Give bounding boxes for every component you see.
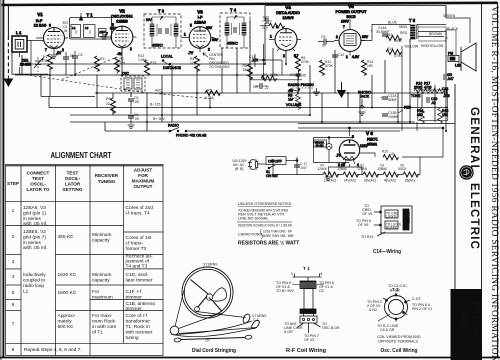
osc coil T2 wiring diagram: [378, 287, 410, 322]
wire B- bus y107.5: [49, 107, 448, 109]
svg-text:455 KC: 455 KC: [58, 234, 75, 240]
svg-text:LATOR TO: LATOR TO: [27, 187, 50, 192]
svg-text:with receiver: with receiver: [126, 330, 153, 336]
svg-text:.05: .05: [301, 74, 306, 78]
svg-text:V5: V5: [348, 4, 354, 9]
svg-text:5: 5: [12, 290, 15, 296]
svg-text:transformer: transformer: [126, 319, 151, 325]
caps C5 C6 left: [128, 96, 139, 104]
cord loop curl: [209, 288, 227, 301]
svg-text:470K: 470K: [301, 60, 310, 64]
right margin rule (schematic edge): [454, 84, 456, 357]
svg-text:2: 2: [208, 48, 210, 52]
svg-text:OF V6: OF V6: [358, 223, 368, 227]
svg-text:V3: V3: [197, 10, 203, 15]
svg-text:MORE THAN ONE - MMF: MORE THAN ONE - MMF: [263, 234, 294, 238]
svg-text:7: 7: [45, 48, 47, 52]
svg-text:maximum: maximum: [92, 294, 113, 300]
svg-text:12BA6: 12BA6: [337, 167, 347, 171]
svg-text:TO C4,C1C,: TO C4,C1C,: [388, 284, 408, 288]
resistor R10: [382, 150, 399, 160]
svg-text:RECEIVER: RECEIVER: [95, 173, 119, 178]
svg-text:I-F: I-F: [198, 16, 203, 20]
caps C12A C12B: [380, 94, 397, 102]
tube V6 rectifier: [336, 131, 378, 167]
antenna lead with shield arrow: [7, 6, 9, 36]
svg-text:100MF: 100MF: [388, 115, 399, 119]
svg-text:22K: 22K: [120, 61, 127, 65]
svg-text:1: 1: [12, 208, 15, 214]
page left border: [2, 0, 4, 357]
svg-text:RED: RED: [400, 31, 408, 35]
svg-text:1500 KC: 1500 KC: [58, 290, 77, 296]
cord crossing lines: [171, 321, 257, 337]
wire bus y75: [15, 74, 300, 76]
svg-text:B- 115: B- 115: [150, 103, 160, 107]
svg-text:C5: C5: [78, 53, 82, 57]
resistor R5: [205, 91, 221, 96]
pointer rod with eyelets: [181, 338, 245, 340]
svg-text:121V: 121V: [360, 144, 369, 148]
capacitor C5: [72, 51, 82, 64]
cap C4: [63, 21, 70, 33]
svg-text:former T3: former T3: [126, 246, 147, 252]
svg-text:AVC: AVC: [155, 89, 163, 93]
svg-text:RED: RED: [404, 106, 412, 110]
svg-text:GR: GR: [290, 73, 296, 77]
wire phono line y131: [105, 122, 400, 131]
svg-text:trimmer: trimmer: [126, 306, 143, 312]
svg-text:48V(AC): 48V(AC): [384, 179, 396, 183]
svg-text:PIN 2 OF V1: PIN 2 OF V1: [412, 307, 432, 311]
svg-text:1: 1: [184, 33, 186, 37]
svg-text:C9: C9: [321, 35, 325, 39]
svg-text:.02: .02: [321, 44, 326, 48]
svg-text:7: 7: [12, 321, 15, 327]
svg-text:grid (pin 1): grid (pin 1): [23, 211, 46, 217]
svg-text:PHONO +52 ON AB: PHONO +52 ON AB: [176, 134, 207, 138]
svg-text:STEP: STEP: [7, 181, 19, 186]
svg-text:5: 5: [291, 272, 293, 276]
wire AVC bus y64: [22, 63, 265, 65]
phono jack: [358, 91, 371, 116]
svg-text:5: 5: [352, 135, 354, 139]
svg-text:C1F, r-f: C1F, r-f: [126, 289, 142, 295]
svg-text:120: 120: [190, 61, 196, 65]
filament labels: [317, 164, 415, 183]
page right border: [497, 2, 499, 358]
pulley right pair: [242, 313, 252, 324]
cap C17: [294, 162, 307, 170]
svg-text:& R2: & R2: [369, 308, 377, 312]
svg-text:4700: 4700: [394, 54, 402, 58]
svg-text:POWER OUTPUT: POWER OUTPUT: [335, 10, 367, 14]
i-f transformer T4: [220, 8, 250, 49]
svg-text:90V: 90V: [362, 35, 369, 39]
svg-text:2: 2: [283, 54, 285, 58]
svg-text:V2: V2: [119, 9, 125, 14]
C14 wiring box: [374, 206, 412, 236]
svg-text:COIL VIEWED FROM END: COIL VIEWED FROM END: [377, 335, 421, 339]
svg-text:90V: 90V: [212, 38, 219, 42]
loop antenna L1: [12, 30, 44, 74]
svg-text:OF V5: OF V5: [362, 212, 372, 216]
volume control R8: [286, 83, 314, 110]
wire v4 left net: [250, 44, 302, 80]
svg-text:(B′ B): (B′ B): [235, 167, 243, 171]
cord runs: [175, 290, 246, 329]
svg-text:.05: .05: [134, 117, 139, 121]
svg-text:4.8V: 4.8V: [352, 55, 360, 59]
svg-text:455KC: 455KC: [152, 44, 163, 48]
wire speaker green: [418, 6, 470, 44]
svg-text:50MF: 50MF: [388, 98, 397, 102]
svg-text:LOCAL: LOCAL: [161, 55, 173, 59]
svg-text:12BA6, V3: 12BA6, V3: [23, 205, 46, 211]
svg-text:12BE6, V2: 12BE6, V2: [23, 229, 46, 235]
svg-text:RESISTORS IN OHMS (K=1000), M: RESISTORS IN OHMS (K=1000), M = 1,000,00…: [238, 224, 292, 228]
svg-text:7: 7: [343, 25, 345, 29]
svg-text:R10: R10: [382, 150, 388, 154]
svg-text:50C5: 50C5: [346, 15, 355, 19]
svg-text:FILTER: FILTER: [407, 212, 411, 224]
svg-text:12AV6: 12AV6: [317, 167, 327, 171]
svg-text:5: 5: [190, 24, 192, 28]
svg-text:ON R15: ON R15: [266, 174, 278, 178]
svg-text:PM: PM: [448, 52, 453, 56]
resistor R1: [41, 54, 53, 70]
svg-text:SETTING: SETTING: [63, 187, 83, 192]
wire B+ top line: [265, 6, 446, 22]
svg-text:MAXIMUM: MAXIMUM: [132, 179, 155, 184]
junction dots: [49, 63, 447, 132]
svg-text:LINE-NO SIGNAL: LINE-NO SIGNAL: [238, 217, 268, 221]
svg-text:T 4: T 4: [230, 8, 237, 13]
svg-text:1620 KC: 1620 KC: [58, 272, 77, 278]
bottom border: [0, 357, 500, 359]
svg-text:2: 2: [62, 48, 64, 52]
svg-text:C13: C13: [442, 87, 448, 91]
svg-text:TONE: TONE: [411, 94, 421, 98]
resistor R4: [190, 56, 200, 72]
coupling 680/220: [260, 16, 285, 31]
tube V2: [104, 9, 137, 57]
radio phono switch: [168, 124, 207, 138]
svg-text:330K: 330K: [270, 73, 279, 77]
svg-text:10: 10: [390, 152, 394, 156]
resistor R9: [111, 98, 116, 114]
svg-text:470K: 470K: [325, 64, 334, 68]
svg-text:C11: C11: [249, 55, 255, 59]
svg-text:RECT.: RECT.: [367, 138, 378, 142]
resistor R2: [115, 57, 127, 73]
svg-text:LUG(S): LUG(S): [386, 215, 397, 219]
svg-text:i-f trans. T4: i-f trans. T4: [126, 211, 151, 217]
svg-text:L3: L3: [85, 26, 89, 30]
svg-text:BLACK: BLACK: [447, 27, 459, 31]
cap C8A: [290, 70, 306, 80]
svg-text:66-6M: 66-6M: [316, 143, 325, 147]
svg-text:For maxi-: For maxi-: [92, 313, 113, 319]
svg-text:50C5: 50C5: [398, 167, 406, 171]
resistor R14: [386, 47, 402, 58]
svg-text:CAPACITORS:: CAPACITORS:: [238, 233, 263, 237]
svg-text:BROWN: BROWN: [429, 32, 443, 36]
phono ground arrow: [338, 82, 346, 97]
svg-text:12BE6: 12BE6: [116, 20, 127, 24]
svg-text:C3: C3: [99, 31, 103, 35]
svg-text:VOLUME: VOLUME: [286, 103, 302, 107]
svg-text:ADJUST: ADJUST: [134, 168, 153, 173]
svg-text:L1: L1: [23, 289, 29, 295]
svg-text:TEST: TEST: [67, 171, 79, 176]
svg-text:OSC: OSC: [122, 72, 130, 76]
svg-text:of T1: of T1: [92, 330, 103, 336]
svg-text:T1. Rock in: T1. Rock in: [126, 324, 151, 330]
svg-text:RADIO: RADIO: [168, 124, 179, 128]
svg-text:R3: R3: [388, 33, 392, 37]
svg-text:85(AC): 85(AC): [405, 179, 415, 183]
page top border: [1, 3, 497, 5]
svg-text:+: +: [370, 28, 373, 33]
output transformer T5: [361, 18, 446, 42]
svg-text:3 TURNS: 3 TURNS: [203, 263, 218, 267]
svg-text:FOR: FOR: [138, 173, 148, 178]
svg-text:12BA6: 12BA6: [377, 167, 387, 171]
svg-text:10-365: 10-365: [20, 63, 31, 67]
svg-text:T 1: T 1: [303, 266, 310, 271]
on-off switch: [266, 157, 286, 179]
svg-text:mately: mately: [58, 319, 73, 325]
resistor R6: [296, 56, 310, 72]
svg-text:.05: .05: [134, 100, 139, 104]
ground filament: [325, 177, 332, 181]
svg-text:Core of r-f: Core of r-f: [126, 313, 148, 319]
svg-text:455KC: 455KC: [227, 42, 238, 46]
svg-text:.1V: .1V: [56, 51, 62, 55]
svg-text:8: 8: [321, 272, 323, 276]
svg-text:8: 8: [12, 347, 15, 353]
svg-text:OSCIL-: OSCIL-: [65, 176, 81, 181]
svg-text:90V: 90V: [146, 18, 153, 22]
svg-text:4: 4: [12, 274, 15, 280]
svg-text:C10: C10: [338, 53, 344, 57]
GE monogram logo: [459, 165, 473, 179]
filament resistor chain: [323, 172, 419, 177]
svg-text:OSC B-GR: OSC B-GR: [322, 326, 340, 330]
svg-text:B+ 90V: B+ 90V: [153, 117, 165, 121]
vertical wires: [22, 20, 446, 131]
svg-text:T4 and T3: T4 and T3: [126, 264, 148, 270]
resistor R3b: [386, 33, 402, 43]
svg-text:150: 150: [367, 64, 373, 68]
svg-text:T 3: T 3: [158, 9, 165, 14]
svg-text:90V: 90V: [110, 27, 117, 31]
resistor R23: [145, 60, 157, 76]
svg-text:UNLESS OTHERWISE NOTED: UNLESS OTHERWISE NOTED: [238, 202, 292, 206]
svg-text:R-F Coil Wiring: R-F Coil Wiring: [286, 348, 326, 354]
svg-text:TO R14: TO R14: [361, 235, 374, 239]
svg-text:V1: V1: [37, 12, 43, 17]
cap C8: [253, 83, 269, 90]
svg-text:i-f trans-: i-f trans-: [126, 241, 144, 247]
loop section frame: [12, 52, 49, 108]
svg-text:Inductively: Inductively: [23, 272, 46, 278]
svg-text:DISTANCE: DISTANCE: [163, 66, 182, 70]
dial cord stringing diagram: [170, 263, 267, 343]
svg-text:6: 6: [12, 302, 15, 308]
svg-text:560Ω: 560Ω: [399, 25, 408, 29]
svg-text:GREEN: GREEN: [443, 14, 456, 18]
center pin note: [203, 53, 230, 69]
wire power band: [257, 124, 455, 175]
svg-text:GENERAL: GENERAL: [468, 107, 480, 173]
svg-text:TO B+ 90V: TO B+ 90V: [276, 289, 294, 293]
svg-text:480: 480: [458, 312, 469, 331]
svg-text:R14: R14: [387, 47, 393, 51]
svg-text:1000: 1000: [394, 39, 402, 43]
resistor R12: [362, 60, 374, 76]
svg-text:35W4: 35W4: [367, 143, 377, 147]
tube V1: [34, 12, 68, 59]
ground near phono: [313, 88, 320, 96]
pulley left: [170, 326, 179, 335]
svg-text:C5: C5: [319, 289, 324, 293]
svg-text:OSCIL-: OSCIL-: [30, 182, 46, 187]
svg-text:1: 1: [270, 35, 272, 39]
svg-text:2: 2: [336, 35, 338, 39]
svg-text:C6 & GR: C6 & GR: [380, 328, 395, 332]
svg-text:Minimum: Minimum: [92, 272, 111, 278]
svg-text:1: 1: [346, 55, 348, 59]
dial drum: [182, 267, 233, 318]
svg-text:15": 15": [205, 339, 211, 343]
svg-text:CONNECT: CONNECT: [27, 171, 50, 176]
svg-text:C1D, oscil-: C1D, oscil-: [126, 272, 150, 278]
svg-text:DET.& AUDIO: DET.& AUDIO: [276, 11, 300, 15]
idler pulley inside: [195, 307, 200, 312]
svg-text:T 1: T 1: [87, 13, 94, 18]
svg-text:.22: .22: [264, 86, 269, 90]
svg-text:R3: R3: [100, 57, 104, 61]
tube V3: [182, 10, 219, 56]
notes block: [237, 202, 299, 247]
svg-text:VOLUME R-16, MOST-OFTEN-NEEDED: VOLUME R-16, MOST-OFTEN-NEEDED 1956 RADI…: [489, 6, 499, 360]
svg-text:TEST: TEST: [32, 176, 44, 181]
svg-text:V 6: V 6: [366, 131, 373, 136]
svg-text:tuning: tuning: [126, 335, 139, 341]
svg-text:33K: 33K: [243, 68, 250, 72]
svg-text:-6V: -6V: [117, 52, 123, 56]
svg-text:BLUE: BLUE: [388, 21, 398, 25]
svg-text:ON-OFF: ON-OFF: [268, 160, 283, 164]
tube V5 power output: [334, 4, 369, 59]
wire bus y115: [70, 114, 310, 116]
svg-text:Cores of 1st: Cores of 1st: [126, 235, 153, 241]
gang capacitor dashed link: [21, 74, 214, 99]
svg-text:OSC./CONV.: OSC./CONV.: [111, 15, 133, 19]
resistor R3 cathode: [95, 56, 105, 72]
resistor R33: [243, 64, 253, 80]
svg-text:3: 3: [12, 259, 15, 265]
resistor R11: [320, 60, 334, 76]
svg-text:OUTPUT: OUTPUT: [134, 184, 153, 189]
cap C10: [332, 53, 344, 57]
svg-text:Dial Cord Stringing: Dial Cord Stringing: [192, 348, 236, 354]
svg-text:2: 2: [12, 234, 15, 240]
svg-text:mum Rock: mum Rock: [92, 319, 116, 325]
svg-text:RESISTORS ARE ½ WATT: RESISTORS ARE ½ WATT: [238, 240, 299, 247]
svg-text:.005: .005: [443, 94, 450, 98]
svg-text:ELECTRIC: ELECTRIC: [468, 183, 480, 250]
svg-text:6: 6: [49, 24, 51, 28]
r-f coil T1 wiring diagram: [291, 266, 324, 333]
svg-text:ALIGNMENT CHART: ALIGNMENT CHART: [51, 151, 112, 160]
speaker LS1: [418, 27, 476, 71]
capacitor C11: [249, 54, 258, 67]
svg-text:.02: .02: [431, 101, 436, 105]
wire color labels: [388, 14, 459, 49]
svg-text:Minimum: Minimum: [92, 232, 111, 238]
svg-text:capacity: capacity: [92, 238, 110, 244]
svg-text:22: 22: [106, 102, 110, 106]
electrolytic C14A: [370, 26, 390, 36]
svg-text:coupled to: coupled to: [23, 278, 45, 284]
drum spokes: [191, 280, 223, 312]
AC label: [232, 159, 247, 171]
svg-text:36V(AC): 36V(AC): [364, 179, 376, 183]
svg-text:TUNING: TUNING: [98, 179, 116, 184]
wire B+ bus y122: [70, 121, 415, 123]
svg-text:L 1: L 1: [16, 30, 22, 35]
svg-text:OPPOSITE TERMINALS: OPPOSITE TERMINALS: [378, 340, 418, 344]
svg-text:Osc. Coil Wiring: Osc. Coil Wiring: [381, 348, 418, 354]
svg-text:JACK: JACK: [360, 95, 370, 99]
svg-text:MODEL: MODEL: [471, 302, 482, 342]
svg-text:YELLOW: YELLOW: [404, 45, 419, 49]
svg-text:RED/YELLOW: RED/YELLOW: [421, 44, 444, 48]
svg-text:LS1: LS1: [455, 64, 461, 68]
r-f transformer T1: [70, 13, 112, 40]
svg-text:trimmer: trimmer: [126, 294, 143, 300]
svg-text:100V: 100V: [341, 20, 350, 24]
svg-text:12BA6: 12BA6: [194, 21, 205, 25]
svg-text:220: 220: [262, 26, 268, 30]
grid capacitor C3: [99, 31, 109, 40]
svg-text:RADIO PHONO: RADIO PHONO: [288, 83, 314, 87]
svg-text:in with core: in with core: [92, 324, 117, 330]
svg-text:radio loop: radio loop: [23, 283, 44, 289]
svg-text:L2: L2: [72, 26, 76, 30]
svg-text:LESS THAN ONE - MF: LESS THAN ONE - MF: [263, 230, 293, 234]
svg-text:GR: GR: [253, 85, 259, 89]
i-f transformer T3: [144, 9, 181, 49]
svg-text:BOARD: BOARD: [386, 226, 398, 230]
svg-text:capacity: capacity: [92, 278, 110, 284]
svg-text:2: 2: [130, 47, 132, 51]
page left scan edge: [0, 0, 2, 360]
svg-text:24V(AC): 24V(AC): [344, 179, 356, 183]
svg-text:with .05 mf.: with .05 mf.: [23, 245, 48, 251]
resistor R7: [261, 73, 279, 81]
variable capacitor C1A: [34, 58, 43, 68]
svg-text:12BE6: 12BE6: [357, 167, 367, 171]
svg-text:12V(AC): 12V(AC): [324, 179, 336, 183]
svg-text:& GR: & GR: [284, 330, 293, 334]
svg-text:.7V: .7V: [188, 51, 194, 55]
tone network: [398, 46, 454, 131]
svg-text:Cores of 2nd: Cores of 2nd: [126, 205, 154, 211]
